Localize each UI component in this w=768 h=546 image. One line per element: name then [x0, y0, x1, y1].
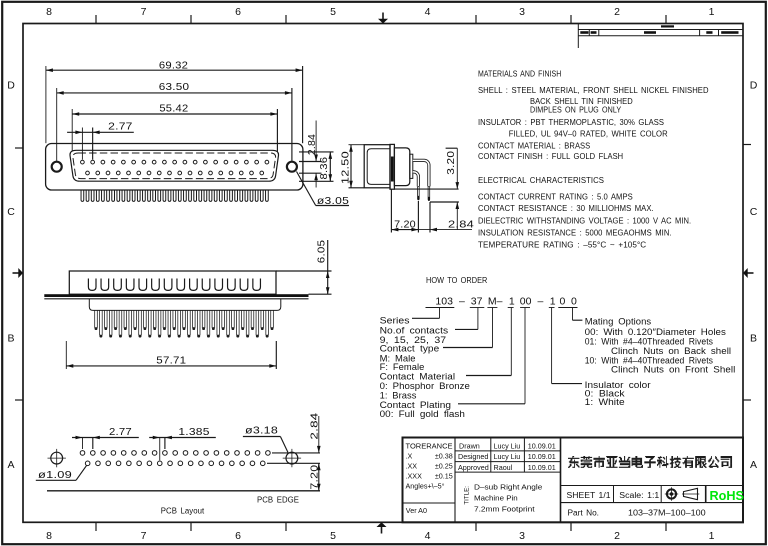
svg-text:INSULATION RESISTANCE : 5000 M: INSULATION RESISTANCE : 5000 MEGAOHMS MI… — [478, 229, 672, 238]
lower pin tip — [418, 187, 420, 200]
svg-text:00: 00 — [520, 296, 532, 308]
side view shell inner face — [367, 149, 390, 185]
svg-text:103: 103 — [435, 296, 453, 308]
mounting hole right — [287, 162, 297, 172]
svg-text:.XX: .XX — [406, 462, 418, 471]
svg-text:DIMPLES ON PLUG ONLY: DIMPLES ON PLUG ONLY — [530, 105, 622, 114]
svg-text:B: B — [750, 333, 757, 345]
pin row 1 (19 contacts) — [81, 160, 85, 164]
top view pins (37) — [94, 310, 96, 328]
svg-text:.X: .X — [406, 452, 413, 461]
dimension 3.20 — [446, 147, 458, 149]
svg-text:10.09.01: 10.09.01 — [528, 441, 556, 450]
svg-text:Drawn: Drawn — [459, 441, 480, 450]
svg-text:–: – — [538, 296, 544, 308]
dimension 63.50 — [56, 88, 58, 161]
dimension 8.36 — [329, 152, 331, 181]
centre arrow right — [747, 272, 754, 274]
svg-text:CONTACT CURRENT RATING : 5.0 A: CONTACT CURRENT RATING : 5.0 AMPS — [478, 193, 633, 202]
svg-text:TITLE:: TITLE: — [464, 486, 471, 505]
svg-text:Ver A0: Ver A0 — [406, 506, 427, 515]
pcb dimension 1.385 — [159, 438, 161, 461]
dimension 7.20 side — [390, 189, 392, 232]
revision strip frame — [577, 24, 579, 49]
svg-text:8: 8 — [46, 6, 52, 18]
svg-text:2.77: 2.77 — [109, 426, 132, 438]
svg-text:7: 7 — [141, 530, 147, 542]
dimension 2.77 front — [81, 128, 83, 160]
svg-text:Designed: Designed — [458, 452, 488, 461]
svg-text:Angles+\–5°: Angles+\–5° — [406, 482, 445, 491]
svg-text:SHEET 1/1: SHEET 1/1 — [567, 491, 611, 500]
svg-text:A: A — [750, 459, 757, 471]
svg-text:Clinch Nuts on Front Shell: Clinch Nuts on Front Shell — [611, 365, 735, 376]
D-shell inner dashed outline — [73, 153, 276, 179]
mounting hole left — [52, 162, 62, 172]
svg-text:DIELECTRIC WITHSTANDING VOLTAG: DIELECTRIC WITHSTANDING VOLTAGE : 1000 V… — [478, 217, 691, 226]
svg-text:5: 5 — [330, 6, 336, 18]
svg-text:RoHS: RoHS — [710, 489, 745, 503]
top view flange bar — [44, 294, 308, 297]
svg-text:Raoul: Raoul — [494, 463, 513, 472]
svg-text:4: 4 — [425, 6, 431, 18]
svg-text:B: B — [7, 333, 14, 345]
pcb hole row 1 (19) — [80, 451, 85, 456]
svg-text:12.50: 12.50 — [340, 151, 352, 184]
svg-text:PCB EDGE: PCB EDGE — [257, 495, 299, 504]
svg-text:1: White: 1: White — [585, 397, 625, 408]
svg-text:INSULATOR : PBT THERMOPLASTIC,: INSULATOR : PBT THERMOPLASTIC, 30% GLASS — [478, 118, 664, 127]
svg-text:HOW TO ORDER: HOW TO ORDER — [426, 276, 488, 285]
svg-text:3: 3 — [519, 530, 525, 542]
svg-text:2: 2 — [614, 530, 620, 542]
svg-text:2.77: 2.77 — [108, 120, 133, 132]
company name — [568, 456, 732, 468]
svg-text:7.20: 7.20 — [394, 218, 416, 230]
svg-text:TEMPERATURE RATING : –55°C ~ +: TEMPERATURE RATING : –55°C ~ +105°C — [478, 241, 647, 250]
svg-text:0: 0 — [571, 296, 577, 308]
svg-text:MATERIALS AND FINISH: MATERIALS AND FINISH — [478, 70, 561, 79]
svg-text:37: 37 — [471, 296, 483, 308]
dimension 6.05 — [276, 270, 332, 272]
solder pin comb below flange — [81, 190, 84, 201]
pcb dimension 2.77 — [82, 438, 84, 450]
svg-text:1: 1 — [509, 296, 515, 308]
svg-text:6: 6 — [235, 530, 241, 542]
svg-text:M–: M– — [488, 296, 503, 308]
projection symbol cone — [684, 488, 698, 499]
svg-text:C: C — [750, 206, 758, 218]
top view shell body — [69, 271, 276, 294]
svg-text:7: 7 — [141, 6, 147, 18]
svg-text:ELECTRICAL CHARACTERISTICS: ELECTRICAL CHARACTERISTICS — [478, 176, 604, 185]
centre arrow top — [382, 13, 384, 20]
svg-text:Approved: Approved — [458, 463, 489, 472]
revision strip text marks — [661, 25, 674, 27]
svg-text:63.50: 63.50 — [159, 81, 190, 93]
svg-text:2: 2 — [614, 6, 620, 18]
pcb edge line — [47, 490, 320, 492]
border zone ticks bottom — [95, 522, 97, 531]
dimension 12.50 — [349, 144, 365, 146]
svg-text:FILLED, UL 94V–0 RATED, WHITE: FILLED, UL 94V–0 RATED, WHITE COLOR — [509, 130, 668, 139]
svg-text:5: 5 — [330, 530, 336, 542]
svg-text:10.09.01: 10.09.01 — [528, 463, 556, 472]
svg-text:2.84: 2.84 — [448, 218, 474, 230]
side view front shell — [364, 145, 390, 188]
svg-text:1: 1 — [709, 6, 715, 18]
dimension 55.42 — [71, 109, 73, 152]
upper pin tip — [428, 187, 430, 201]
svg-text:Lucy Liu: Lucy Liu — [494, 441, 521, 450]
svg-text:.XXX: .XXX — [406, 472, 423, 481]
svg-text:±0.15: ±0.15 — [435, 472, 453, 481]
svg-text:7.20: 7.20 — [309, 465, 321, 490]
svg-text:3.20: 3.20 — [445, 151, 457, 175]
svg-text:D: D — [750, 80, 758, 92]
svg-text:8.36: 8.36 — [318, 157, 330, 180]
svg-text:ø1.09: ø1.09 — [38, 469, 72, 481]
svg-text:C: C — [7, 206, 15, 218]
dimension 2.84 side — [429, 202, 431, 233]
pcb hole row 2 (18) — [85, 461, 90, 466]
svg-text:PCB Layout: PCB Layout — [161, 506, 205, 515]
svg-text:CONTACT RESISTANCE : 30 MILLIO: CONTACT RESISTANCE : 30 MILLIOHMS MAX. — [478, 204, 654, 213]
svg-text:7.2mm Footprint: 7.2mm Footprint — [474, 504, 535, 513]
svg-text:±0.25: ±0.25 — [435, 462, 453, 471]
svg-text:2.84: 2.84 — [306, 134, 318, 155]
border zone ticks top — [95, 15, 97, 24]
svg-text:D: D — [7, 80, 15, 92]
side view back shell insulator — [394, 148, 409, 186]
order code underlines and leaders — [426, 307, 455, 309]
svg-text:4: 4 — [425, 530, 431, 542]
lower right-angle pin — [413, 172, 419, 187]
svg-text:SHELL : STEEL MATERIAL, FRONT: SHELL : STEEL MATERIAL, FRONT SHELL NICK… — [478, 86, 709, 95]
front view flange body — [46, 144, 303, 191]
dimension 57.71 — [65, 341, 67, 369]
svg-text:–: – — [459, 296, 465, 308]
svg-text:1: 1 — [709, 530, 715, 542]
svg-text:69.32: 69.32 — [159, 59, 188, 71]
border zone ticks right — [743, 144, 751, 146]
svg-text:55.42: 55.42 — [159, 103, 188, 115]
svg-text:1: 1 — [550, 296, 556, 308]
svg-text:3: 3 — [519, 6, 525, 18]
svg-text:Part No.: Part No. — [568, 509, 600, 518]
pcb dimension 2.84 vertical — [272, 452, 320, 454]
svg-text:Mating Options: Mating Options — [585, 317, 652, 328]
svg-text:Scale: 1:1: Scale: 1:1 — [619, 491, 659, 500]
svg-text:10.09.01: 10.09.01 — [528, 452, 556, 461]
svg-text:A: A — [7, 459, 14, 471]
pcb mounting hole right crosshair — [286, 452, 298, 464]
svg-text:D–sub Right Angle: D–sub Right Angle — [474, 483, 542, 492]
side view mounting flange plate — [390, 144, 394, 189]
centre arrow bottom — [381, 527, 383, 534]
D-shell outer outline — [70, 150, 279, 181]
svg-text:CONTACT MATERIAL : BRASS: CONTACT MATERIAL : BRASS — [478, 141, 590, 150]
svg-text:±0.38: ±0.38 — [435, 452, 453, 461]
pcb dimension 7.20 vertical — [318, 463, 320, 491]
label diameter 3.05 with leader — [297, 172, 316, 206]
svg-text:TORERANCE: TORERANCE — [406, 442, 453, 451]
svg-text:ø3.05: ø3.05 — [317, 195, 349, 207]
svg-text:6: 6 — [235, 6, 241, 18]
svg-text:CONTACT FINISH : FULL GOLD FLA: CONTACT FINISH : FULL GOLD FLASH — [478, 152, 623, 161]
top view insulator — [89, 299, 280, 311]
svg-text:57.71: 57.71 — [156, 354, 186, 366]
svg-text:00: Full gold flash: 00: Full gold flash — [380, 409, 465, 420]
svg-text:8: 8 — [46, 530, 52, 542]
centre arrow left — [13, 272, 20, 274]
svg-text:103–37M–100–100: 103–37M–100–100 — [628, 509, 706, 518]
svg-text:0: 0 — [560, 296, 566, 308]
dimension 69.32 — [45, 66, 47, 143]
projection symbol circle target — [667, 489, 676, 498]
upper right-angle pin — [413, 160, 429, 186]
pcb mounting hole left crosshair — [51, 452, 63, 464]
svg-text:1.385: 1.385 — [178, 426, 209, 438]
dimension 2.84 front (row pitch) — [299, 151, 334, 153]
svg-text:Machine Pin: Machine Pin — [474, 493, 518, 502]
svg-text:6.05: 6.05 — [316, 240, 328, 263]
svg-text:ø3.18: ø3.18 — [245, 425, 278, 437]
border zone ticks left — [15, 147, 23, 149]
top view dimples (14) — [88, 279, 96, 291]
svg-text:Lucy Liu: Lucy Liu — [494, 452, 521, 461]
title block frame — [403, 438, 744, 523]
side view back step — [410, 154, 413, 178]
svg-text:2.84: 2.84 — [309, 413, 321, 440]
pin row 2 (18 contacts) — [86, 171, 90, 175]
